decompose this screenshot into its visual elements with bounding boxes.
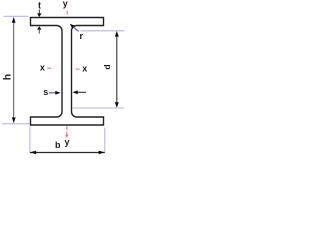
h dimension line: [13, 20, 15, 120]
s arrow right (pointing left at web): [73, 90, 78, 94]
x axis dash left (red): [47, 67, 51, 69]
x axis dash right (red): [76, 68, 80, 70]
b dimension line: [30, 152, 105, 154]
r leader arrow: [73, 27, 79, 32]
h arrow down: [12, 117, 16, 123]
y axis dashes bottom (red): [66, 126, 68, 130]
d arrow up: [115, 31, 119, 37]
s arrow left (pointing right at web): [49, 92, 56, 94]
svg-text:s: s: [43, 87, 48, 97]
svg-text:r: r: [80, 31, 84, 41]
I-beam section outline: [31, 18, 104, 126]
svg-text:x: x: [40, 63, 45, 73]
b extension line left (blue): [29, 127, 31, 153]
d dimension line: [116, 34, 118, 106]
y axis dash top (red): [66, 11, 68, 15]
svg-text:d: d: [102, 64, 112, 69]
svg-text:x: x: [82, 63, 87, 73]
t arrow upper (pointing down at flange top): [38, 10, 40, 15]
h arrow up: [12, 17, 16, 23]
y axis small arrow bottom (red): [65, 135, 68, 138]
b extension line right (blue): [104, 128, 106, 153]
svg-text:y: y: [64, 137, 69, 147]
svg-text:y: y: [63, 0, 68, 9]
d dimension extension line top (blue): [81, 30, 125, 32]
svg-text:b: b: [55, 140, 61, 150]
svg-text:h: h: [2, 74, 14, 80]
b arrow right: [99, 151, 105, 155]
h dimension extension line top (blue): [3, 15, 28, 17]
d dimension extension line bottom (blue): [72, 107, 124, 109]
b arrow left: [30, 151, 36, 155]
h dimension extension line bottom (blue): [2, 123, 30, 125]
svg-text:t: t: [38, 0, 41, 10]
d arrow down: [115, 102, 119, 108]
t arrow lower (pointing up at flange bottom): [37, 26, 41, 30]
